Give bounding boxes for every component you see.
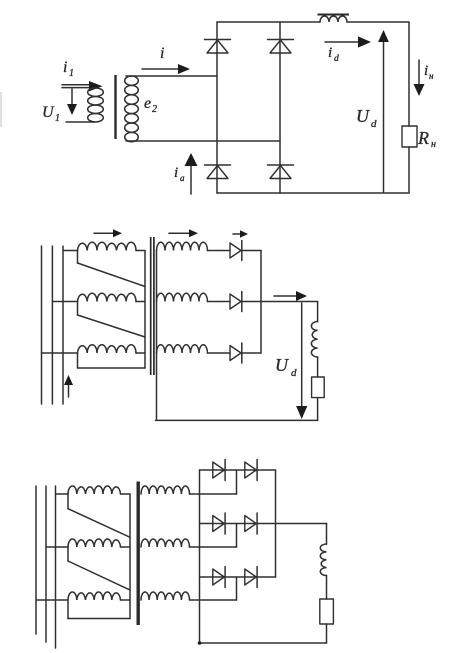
transformer T3 primary winding W2: [68, 539, 130, 547]
wire: L1 to primary winding W3: [42, 352, 78, 354]
diode VD1 (top left): [205, 40, 231, 54]
arrow ia diode current: [185, 153, 198, 194]
arrow current above primary W1: [94, 229, 122, 237]
wire: phase line L2 (bottom circuit): [45, 486, 47, 642]
wire: winding c to diode V3: [208, 352, 231, 354]
label ia: [174, 165, 185, 183]
wire: delta drop W1 left: [67, 494, 69, 509]
label U1: [42, 104, 60, 124]
wire: bottom return: [156, 419, 318, 421]
svg-text:i: i: [63, 59, 67, 76]
wire: phase line L3: [62, 246, 64, 404]
diode V4 bridge: [245, 513, 257, 534]
wire: left edge cropped mark: [0, 92, 2, 127]
transformer T3 secondary winding b: [141, 539, 190, 547]
wire: bridge left rail: [216, 22, 218, 193]
svg-text:e: e: [144, 95, 151, 112]
wire: resistor to bottom return: [326, 624, 328, 643]
svg-text:1: 1: [55, 113, 60, 124]
wire: diode V1 to cathode bus: [243, 250, 262, 252]
diode V6 bridge: [245, 567, 257, 588]
label Rn: [417, 128, 436, 150]
svg-text:i: i: [174, 165, 178, 181]
wire: phase line L3 (bottom circuit): [55, 486, 57, 648]
wire: secondary star bus: [156, 251, 158, 421]
svg-text:н: н: [431, 139, 436, 150]
svg-text:R: R: [417, 128, 429, 148]
wire: bridge bottom bus: [217, 192, 409, 194]
wire: winding c stub to riser: [190, 577, 237, 600]
wire: winding a to diode V1: [208, 250, 231, 252]
arrow i current direction: [142, 64, 190, 74]
diode VD3 (bottom left): [205, 165, 231, 179]
wire: right load branch: [408, 22, 410, 193]
resistor R load (bottom circuit): [320, 599, 334, 624]
wire: cathode bus (right): [275, 470, 277, 577]
wire: secondary bottom to bridge node B: [126, 140, 280, 142]
diode V2: [230, 292, 242, 312]
arrow current above diode V1: [233, 230, 248, 238]
wire: delta bottom return: [68, 618, 130, 620]
svg-text:U: U: [42, 104, 55, 121]
diode V1: [230, 241, 242, 261]
svg-text:i: i: [424, 63, 428, 79]
arrow output current: [274, 291, 307, 301]
wire: anode bus (left): [199, 470, 201, 643]
arrow im load current: [414, 60, 425, 96]
wire: bridge row 1: [200, 469, 276, 471]
svg-text:i: i: [160, 45, 164, 62]
wire: L3 to primary winding W1: [56, 493, 69, 495]
wire: L2 to primary winding W2: [46, 546, 68, 548]
transformer T3 secondary winding c: [141, 592, 190, 600]
arrow current above secondary a: [169, 229, 198, 237]
wire: delta drop W1 left: [77, 251, 79, 264]
wire: phase line L2: [51, 246, 53, 404]
svg-text:a: a: [180, 173, 185, 183]
resistor R load: [312, 377, 325, 398]
resistor Rn load: [402, 126, 417, 147]
svg-text:1: 1: [69, 68, 74, 79]
arrow Ud voltage (up): [378, 30, 389, 192]
arrow id current direction: [325, 36, 371, 47]
node: bottom left junction: [198, 641, 202, 645]
wire: cathode bus: [260, 251, 262, 354]
wire: primary bottom terminal: [66, 121, 95, 123]
transformer T3 core: [136, 482, 139, 626]
label id: [328, 45, 339, 64]
transformer T2 primary winding W3: [78, 345, 146, 353]
svg-text:d: d: [334, 54, 339, 64]
inductor L load choke: [311, 302, 317, 378]
transformer T3 secondary winding a: [141, 486, 190, 494]
transformer T1 secondary winding e2: [125, 76, 139, 142]
diode V5 bridge: [213, 567, 225, 588]
label e2: [144, 95, 157, 115]
wire: phase line L1: [41, 246, 43, 404]
transformer T2 secondary winding a: [157, 242, 208, 250]
diode V3 bridge: [213, 513, 225, 534]
svg-text:i: i: [328, 45, 332, 61]
wire: bridge row 3: [200, 576, 276, 578]
svg-text:U: U: [356, 106, 370, 126]
svg-text:2: 2: [152, 104, 157, 115]
transformer T3 primary winding W3: [68, 592, 130, 600]
wire: resistor to bottom: [317, 398, 319, 421]
diode VD2 (top right): [268, 40, 294, 54]
label Ud: [275, 355, 297, 379]
label i1 (primary current): [63, 59, 74, 79]
wire: bridge row 2 (output): [200, 523, 327, 525]
label Ud: [356, 106, 377, 130]
wire: delta diagonal W2-W3: [78, 315, 146, 337]
arrow Ud voltage (down): [296, 303, 307, 419]
wire: delta diagonal W1-W2: [78, 263, 146, 287]
svg-text:U: U: [275, 355, 289, 375]
wire: winding b to diode V2: [208, 301, 231, 303]
wire: output to load: [243, 301, 318, 303]
transformer T2 primary winding W2: [78, 293, 146, 301]
inductor Ld (smoothing choke with core bar): [318, 15, 350, 23]
wire: bridge right rail: [279, 22, 281, 193]
transformer T2 secondary winding b: [157, 293, 208, 301]
wire: delta diagonal W2-W3: [68, 561, 130, 590]
wire: delta drop W3 left: [77, 353, 79, 368]
transformer T1 primary winding: [88, 88, 104, 122]
wire: delta diagonal W1-W2: [68, 509, 130, 538]
svg-text:d: d: [291, 367, 297, 379]
wire: L1 to primary winding W3: [36, 599, 68, 601]
wire: delta bottom return: [78, 367, 146, 369]
wire: delta drop W2 left: [67, 547, 69, 561]
arrow U1 voltage direction: [67, 89, 77, 115]
wire: primary delta right bus: [129, 494, 131, 619]
label i (secondary current): [160, 45, 164, 62]
svg-text:d: d: [371, 118, 377, 130]
wire: L3 to primary winding W1: [63, 250, 78, 252]
wire: diode V3 to cathode bus: [243, 352, 262, 354]
transformer T3 primary winding W1: [68, 486, 130, 494]
diode V1 bridge: [213, 460, 225, 481]
arrow phase sequence (up): [64, 375, 73, 397]
svg-text:н: н: [429, 71, 434, 81]
wire: secondary top to bridge node A: [126, 75, 217, 77]
wire: delta drop W3 left: [67, 600, 69, 619]
label im: [424, 63, 434, 81]
transformer T2 primary winding W1: [78, 242, 146, 250]
diode V3: [230, 343, 242, 363]
diode V2 bridge: [245, 460, 257, 481]
arrow i1 current direction: [62, 81, 103, 91]
transformer T2 core: [151, 237, 154, 375]
wire: bridge top bus: [217, 21, 409, 23]
wire: winding a stub to riser: [190, 470, 237, 494]
wire: winding b stub to riser: [190, 524, 237, 548]
inductor L load choke (bottom circuit): [320, 524, 326, 600]
wire: delta drop W2 left: [77, 302, 79, 316]
diode VD4 (bottom right): [268, 165, 294, 179]
wire: L2 to primary winding W2: [52, 301, 77, 303]
wire: primary delta right bus: [144, 251, 146, 369]
wire: bottom return (bottom circuit): [200, 642, 327, 644]
transformer T1 core: [114, 75, 116, 139]
transformer T2 secondary winding c: [157, 345, 208, 353]
wire: phase line L1 (bottom circuit): [35, 486, 37, 634]
